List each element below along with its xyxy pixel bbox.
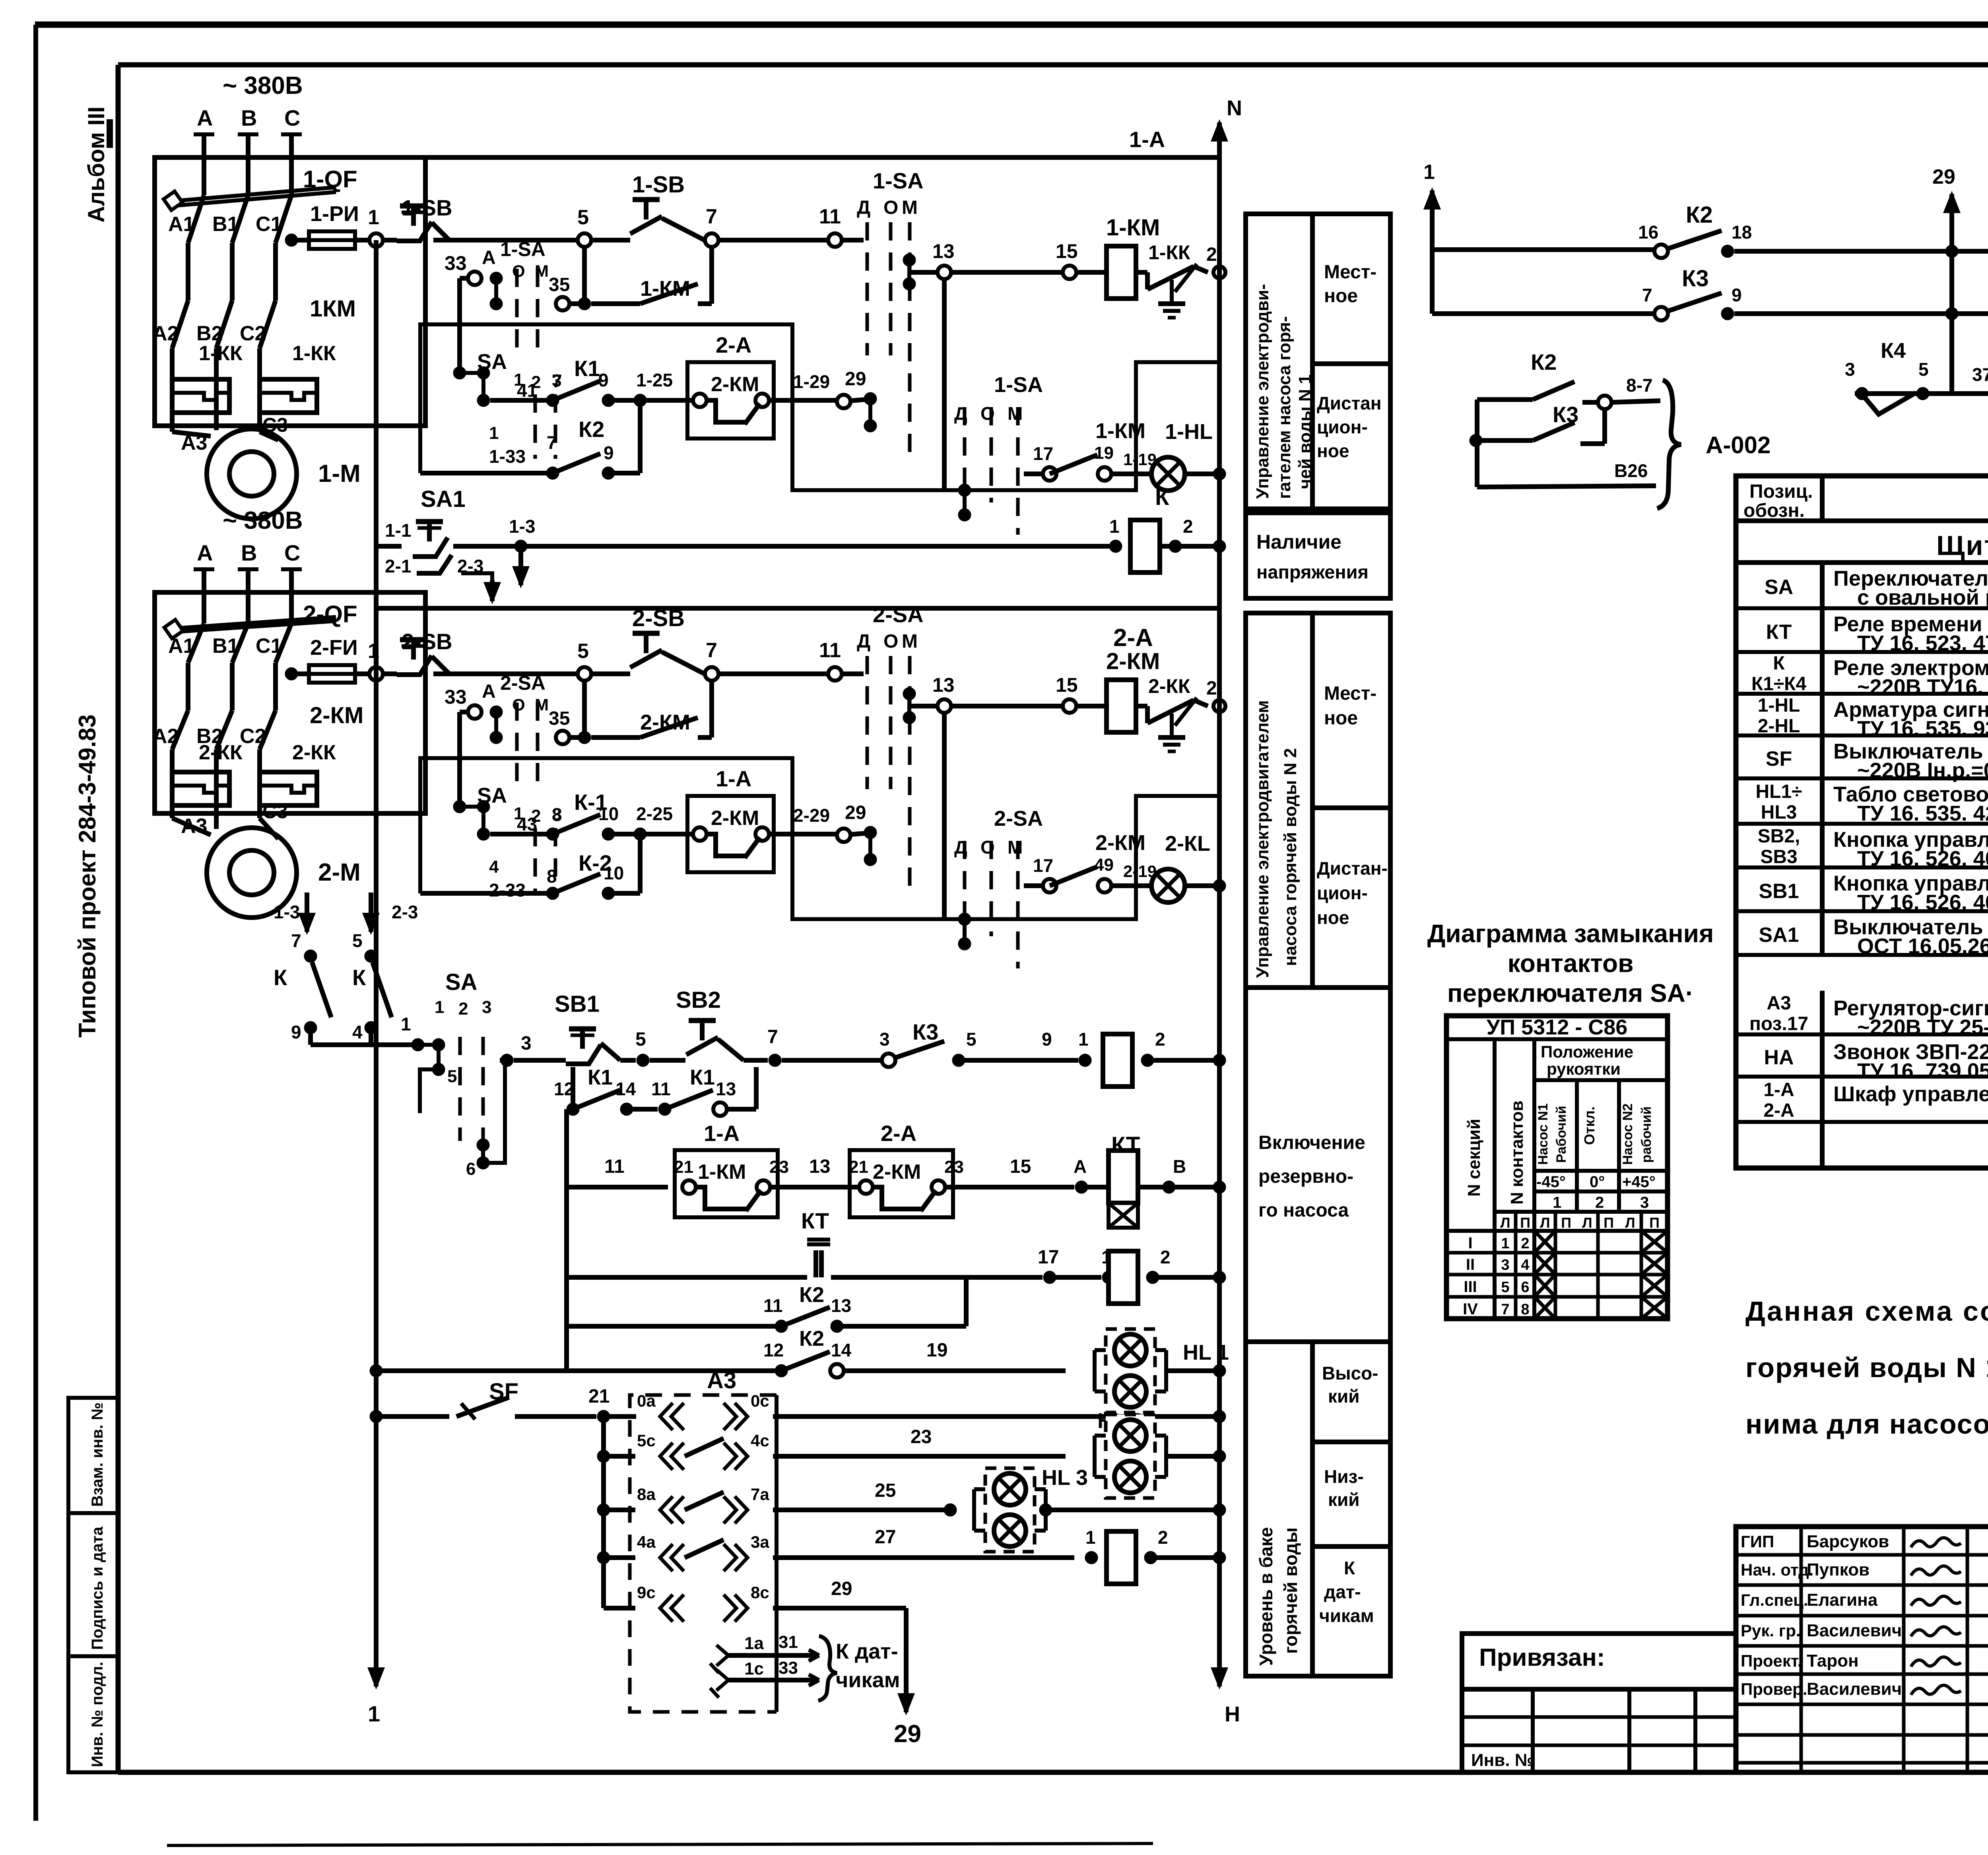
vertical node5 drop — [582, 681, 587, 737]
diagram table header УП5312-С86 — [1446, 1015, 1668, 1039]
svg-text:18: 18 — [1732, 222, 1752, 243]
cabinet 1-А top edge — [425, 127, 1219, 157]
svg-text:2-SA: 2-SA — [873, 602, 924, 627]
svg-text:1: 1 — [401, 1014, 411, 1034]
svg-text:10: 10 — [598, 803, 619, 824]
svg-text:1-29: 1-29 — [793, 371, 830, 392]
switch SA1 — [376, 486, 483, 576]
selector SA small column — [453, 350, 561, 459]
time relay coil КТ — [1081, 1132, 1226, 1228]
svg-text:В1: В1 — [212, 635, 239, 658]
svg-text:2-1: 2-1 — [385, 556, 411, 576]
svg-text:1-SB: 1-SB — [632, 172, 685, 198]
svg-text:41: 41 — [517, 380, 537, 401]
svg-text:К2: К2 — [799, 1283, 824, 1307]
label column box3 rotated text — [1253, 700, 1300, 978]
svg-text:Провер.: Провер. — [1741, 1680, 1807, 1698]
svg-text:1-РИ: 1-РИ — [310, 202, 359, 226]
interlock box 2-А on reserve rung — [849, 1121, 964, 1217]
svg-text:А-002: А-002 — [1706, 432, 1771, 458]
svg-text:Низ-: Низ- — [1324, 1466, 1364, 1487]
svg-text:Рук. гр.: Рук. гр. — [1741, 1621, 1801, 1640]
svg-text:~220В Iн.р.=0,63А ТУ16.522.11: ~220В Iн.р.=0,63А ТУ16.522.110-74 — [1857, 759, 1988, 782]
svg-text:2-НL: 2-НL — [1758, 716, 1800, 737]
svg-text:2-КК: 2-КК — [1148, 675, 1190, 697]
svg-text:8: 8 — [552, 804, 562, 825]
svg-text:9: 9 — [1042, 1029, 1052, 1050]
svg-text:2-КМ: 2-КМ — [711, 807, 759, 830]
contactor main contacts 1КМ — [152, 289, 356, 374]
svg-text:М: М — [902, 197, 918, 218]
svg-text:2-КМ: 2-КМ — [1106, 648, 1160, 674]
svg-text:Гл.спец.: Гл.спец. — [1741, 1591, 1808, 1609]
Привязан box — [1462, 1634, 1736, 1689]
svg-text:Проект.: Проект. — [1741, 1651, 1802, 1670]
parts table rows По месту — [1736, 993, 1988, 1126]
svg-text:23: 23 — [769, 1157, 789, 1177]
signal wire row 2 — [1432, 250, 1654, 314]
svg-text:Высо-: Высо- — [1322, 1363, 1378, 1383]
svg-text:2: 2 — [1158, 1527, 1168, 1548]
svg-text:7: 7 — [706, 639, 717, 662]
node 2 to N — [1206, 678, 1225, 712]
svg-text:Подпись и дата: Подпись и дата — [89, 1526, 106, 1650]
svg-text:HL3: HL3 — [1761, 802, 1797, 823]
svg-text:8а: 8а — [637, 1485, 656, 1504]
svg-text:8с: 8с — [751, 1583, 769, 1602]
svg-text:КТ: КТ — [1766, 621, 1792, 644]
svg-text:Василевич: Василевич — [1807, 1621, 1902, 1640]
svg-text:2: 2 — [1521, 1235, 1529, 1252]
svg-text:7: 7 — [706, 205, 717, 228]
label column box4 Включение резервного насоса — [1246, 988, 1390, 1342]
node 33 А stack 2- — [445, 672, 549, 807]
Привязан grid — [1462, 1689, 1736, 1772]
node 1 on bus 1- — [368, 206, 383, 247]
svg-text:1-25: 1-25 — [636, 370, 673, 390]
signal lamp HL2 assembly — [1066, 1409, 1226, 1498]
svg-text:ное: ное — [1324, 285, 1358, 307]
svg-text:27: 27 — [875, 1527, 896, 1548]
svg-text:2: 2 — [1183, 516, 1193, 537]
section boundary stepped line — [420, 758, 1219, 919]
svg-text:~ 380В: ~ 380В — [223, 72, 303, 99]
wire to node 7 — [662, 652, 705, 674]
svg-text:5: 5 — [1918, 359, 1929, 380]
stamp label Подпись и дата — [89, 1526, 106, 1650]
sensor connector row 1а 31 — [710, 1632, 819, 1673]
svg-text:с овальной рукояткой ТУ16.524: с овальной рукояткой ТУ16.524.074-75 — [1857, 586, 1988, 609]
svg-text:А: А — [197, 105, 213, 130]
svg-text:1: 1 — [1501, 1235, 1509, 1252]
aux contact 2-КМ seal-in — [549, 681, 712, 744]
29 riser arrow — [1932, 165, 1961, 251]
svg-text:21: 21 — [849, 1157, 868, 1177]
wire to node 29 — [769, 369, 877, 432]
svg-text:I: I — [1468, 1234, 1472, 1252]
svg-text:А: А — [482, 247, 496, 268]
node 13 and wire to coil — [909, 674, 1107, 713]
svg-text:HL 1: HL 1 — [1183, 1341, 1229, 1364]
svg-text:1: 1 — [435, 997, 444, 1017]
drawing frame top — [118, 62, 1988, 68]
svg-text:ТУ 16. 526. 407-79: ТУ 16. 526. 407-79 — [1857, 847, 1988, 871]
svg-text:Инв. №: Инв. № — [1471, 1750, 1534, 1770]
svg-text:напряжения: напряжения — [1256, 561, 1369, 582]
svg-text:чей воды N 1: чей воды N 1 — [1295, 374, 1315, 489]
relay contact К2 signal — [1638, 202, 1752, 258]
contactor coil 2-КМ — [1106, 648, 1160, 732]
svg-text:0а: 0а — [637, 1391, 656, 1410]
svg-text:К1: К1 — [690, 1065, 715, 1089]
svg-text:Данная схема составлена для: Данная схема составлена для насосов — [1745, 1296, 1988, 1327]
svg-text:го насоса: го насоса — [1258, 1200, 1349, 1221]
svg-text:К1: К1 — [574, 356, 600, 381]
node 13 and wire to coil — [909, 240, 1107, 279]
relay coil К — [1109, 484, 1226, 572]
node 5 — [577, 640, 591, 681]
svg-text:2-FИ: 2-FИ — [310, 636, 358, 660]
svg-text:21: 21 — [588, 1386, 610, 1407]
level regulator А3 dashed box — [630, 1368, 777, 1712]
svg-text:33: 33 — [779, 1658, 798, 1678]
aux contacts К1 row — [554, 1065, 756, 1116]
label Дистанционное 1 — [1317, 393, 1382, 461]
svg-text:Шкаф управления: Шкаф управления — [1833, 1082, 1988, 1106]
relay contact К2 row — [420, 400, 640, 479]
svg-text:А2: А2 — [152, 725, 179, 748]
svg-text:4: 4 — [1521, 1257, 1529, 1273]
node 5 rung — [635, 1029, 649, 1067]
svg-text:+45°: +45° — [1622, 1173, 1656, 1191]
svg-text:1: 1 — [1078, 1029, 1089, 1050]
svg-text:К2: К2 — [799, 1327, 824, 1351]
svg-text:1: 1 — [1109, 516, 1120, 537]
svg-text:Положение: Положение — [1541, 1042, 1633, 1061]
svg-text:9: 9 — [604, 442, 614, 463]
svg-text:1-1: 1-1 — [385, 520, 411, 541]
svg-text:2-А: 2-А — [1113, 624, 1153, 652]
svg-text:29: 29 — [1932, 165, 1955, 188]
svg-text:1-КК: 1-КК — [1148, 241, 1190, 264]
N rail bottom arrow — [1211, 1650, 1240, 1726]
relay contact К1 row — [490, 356, 693, 407]
relay coil К1 — [1078, 1029, 1226, 1087]
motor 2-М — [172, 800, 361, 918]
wire 7 to 11 — [718, 671, 828, 676]
wire bus to node 5 — [433, 238, 577, 243]
node 1 arrow top right — [1423, 161, 1441, 250]
svg-text:1-КК: 1-КК — [199, 342, 243, 365]
svg-text:1-КМ: 1-КМ — [698, 1160, 746, 1184]
svg-text:SB2,: SB2, — [1758, 826, 1800, 847]
А3 contact row 0а-0с — [604, 1391, 1226, 1608]
svg-text:1-SA: 1-SA — [994, 373, 1043, 397]
svg-text:К: К — [274, 965, 287, 990]
svg-text:9: 9 — [291, 1022, 301, 1042]
node 7 rung — [767, 1026, 781, 1067]
svg-text:2-А: 2-А — [716, 332, 751, 357]
svg-text:цион-: цион- — [1317, 417, 1368, 437]
svg-text:Л: Л — [1582, 1215, 1592, 1231]
relay contact К3 rung — [782, 1019, 1078, 1067]
vertical node5 drop — [582, 247, 587, 304]
relay contact К3 А-002 — [1470, 402, 1605, 447]
power feed ~380V pump 2-М — [194, 507, 303, 612]
svg-text:N контактов: N контактов — [1507, 1100, 1527, 1205]
svg-text:чикам: чикам — [836, 1668, 900, 1692]
svg-text:-45°: -45° — [1536, 1173, 1566, 1191]
wire bus to node 5 — [433, 671, 577, 676]
aux contact 1-КМ seal-in — [549, 247, 712, 310]
inner box pump1 top — [420, 324, 791, 400]
selector SA small column — [453, 784, 561, 893]
svg-text:N секций: N секций — [1464, 1119, 1484, 1197]
А3 contact row 9с-8с — [604, 1578, 906, 1622]
selector SA dashed group bottom — [420, 969, 505, 1179]
wire to SA — [842, 671, 864, 676]
svg-text:В: В — [241, 105, 257, 130]
А-002 bottom wire В26 — [1477, 400, 1656, 487]
svg-text:Щит управления: Щит управления — [1936, 530, 1988, 561]
svg-text:11: 11 — [819, 639, 841, 662]
svg-text:2-КМ: 2-КМ — [711, 373, 759, 396]
wire to node 29 riser — [1734, 245, 1958, 258]
svg-text:Л: Л — [1625, 1215, 1635, 1231]
svg-text:1с: 1с — [744, 1659, 764, 1678]
svg-text:А: А — [1074, 1156, 1087, 1177]
svg-text:1-М: 1-М — [318, 460, 361, 487]
svg-text:7: 7 — [767, 1026, 778, 1048]
svg-text:3а: 3а — [751, 1533, 769, 1551]
svg-text:14: 14 — [831, 1340, 852, 1360]
svg-text:IV: IV — [1463, 1300, 1478, 1318]
stamp column boxes bottom-left — [68, 1398, 118, 1772]
svg-text:К: К — [1155, 484, 1169, 510]
svg-text:Д: Д — [857, 197, 870, 218]
svg-text:10: 10 — [604, 863, 624, 883]
svg-text:М: М — [902, 631, 918, 652]
start rung wire — [500, 1033, 532, 1067]
А3 contact row 8а-7а — [597, 1480, 950, 1523]
svg-text:С: С — [284, 105, 300, 130]
relay К contact left 1 — [274, 893, 331, 1045]
svg-text:1: 1 — [368, 206, 379, 229]
svg-text:1: 1 — [368, 1701, 380, 1726]
label column box2 Наличие напряжения — [1246, 513, 1390, 598]
svg-text:II: II — [1466, 1256, 1475, 1273]
wire to КТ coil — [945, 1156, 1088, 1193]
svg-text:1-SA: 1-SA — [873, 168, 924, 193]
svg-text:HL 3: HL 3 — [1042, 1466, 1088, 1490]
wire to node 29 — [769, 802, 877, 866]
svg-text:Привязан:: Привязан: — [1479, 1644, 1605, 1671]
svg-text:5: 5 — [966, 1029, 977, 1050]
diagram table data rows — [1446, 1231, 1668, 1319]
node 11 — [819, 205, 842, 247]
selector 1-SA dashed column top — [857, 168, 924, 455]
svg-text:SA: SA — [445, 969, 478, 995]
svg-text:7: 7 — [1642, 285, 1652, 305]
svg-text:8-7: 8-7 — [1626, 375, 1652, 396]
selector 2-SA second dashed column — [944, 713, 1043, 968]
svg-text:3: 3 — [1845, 359, 1855, 380]
svg-text:2-КМ: 2-КМ — [873, 1160, 921, 1184]
svg-text:8: 8 — [547, 866, 557, 887]
circuit breaker 1-QF — [155, 157, 425, 426]
svg-text:11: 11 — [604, 1156, 625, 1177]
N rail vertical — [1211, 96, 1242, 1650]
svg-text:3: 3 — [521, 1033, 532, 1054]
svg-text:23: 23 — [911, 1426, 932, 1448]
svg-text:Н: Н — [1225, 1702, 1240, 1726]
node 7 — [705, 205, 718, 247]
svg-text:1: 1 — [489, 423, 499, 443]
node 33 А stack 1- — [445, 238, 549, 373]
label Местное 2 — [1324, 683, 1376, 729]
relay contact К-2 row — [420, 834, 640, 900]
node 7 — [705, 639, 718, 681]
svg-text:1-33: 1-33 — [489, 446, 526, 467]
wire SA1 to K coil — [453, 516, 1109, 588]
svg-text:1-А: 1-А — [716, 766, 751, 791]
svg-text:2-25: 2-25 — [636, 803, 673, 824]
svg-text:SA: SA — [1765, 576, 1793, 599]
svg-text:2: 2 — [458, 999, 468, 1019]
pushbutton SB2 — [650, 987, 768, 1060]
svg-text:К: К — [352, 965, 366, 990]
label К датчикам — [1319, 1558, 1374, 1626]
svg-text:9: 9 — [1732, 285, 1742, 305]
svg-text:рабочий: рабочий — [1639, 1106, 1654, 1163]
node 5 — [577, 206, 591, 247]
svg-text:поз.17: поз.17 — [1749, 1013, 1808, 1034]
svg-text:7: 7 — [1501, 1301, 1509, 1318]
label Высокий — [1322, 1363, 1378, 1407]
contactor main contacts 2-КМ — [152, 700, 363, 771]
stray scan line bottom — [167, 1843, 1153, 1845]
svg-text:К3: К3 — [1682, 266, 1709, 291]
wire between interlock boxes — [771, 1156, 859, 1187]
svg-text:1-НL: 1-НL — [1758, 695, 1800, 716]
svg-text:29: 29 — [831, 1578, 852, 1599]
relay contact К2 А-002 — [1477, 349, 1660, 409]
svg-text:9с: 9с — [637, 1583, 656, 1602]
svg-text:43: 43 — [517, 814, 537, 834]
svg-text:С3: С3 — [262, 800, 288, 823]
aux contact 1-КМ lamp row — [1024, 419, 1157, 481]
pushbutton 1-SB stop — [383, 195, 452, 241]
svg-text:2-А: 2-А — [881, 1121, 916, 1146]
svg-text:0с: 0с — [751, 1391, 769, 1410]
wire row2 right — [1734, 251, 1988, 320]
sensor connector row 1с 33 — [710, 1658, 819, 1698]
svg-text:7а: 7а — [751, 1485, 769, 1504]
svg-text:К2: К2 — [1686, 202, 1713, 228]
svg-text:С: С — [284, 540, 300, 565]
svg-text:Диаграмма замыкания: Диаграмма замыкания — [1427, 919, 1714, 948]
svg-text:2: 2 — [1595, 1194, 1604, 1211]
svg-text:К2: К2 — [1531, 349, 1557, 374]
svg-text:М: М — [1008, 403, 1023, 424]
svg-text:2-3: 2-3 — [392, 902, 418, 922]
svg-text:С2: С2 — [240, 322, 266, 345]
signal wire row 1 — [1432, 247, 1654, 252]
svg-text:1-НL: 1-НL — [1165, 420, 1213, 444]
parts table vertical lines — [1822, 521, 1988, 1168]
thermal relay 2-КК elements — [172, 741, 336, 813]
svg-text:0°: 0° — [1590, 1173, 1605, 1191]
stamp label Взам инв № — [89, 1403, 106, 1507]
label column box5 rotated text — [1256, 1527, 1301, 1666]
svg-text:SA1: SA1 — [421, 486, 466, 512]
svg-text:Дистан-: Дистан- — [1317, 858, 1388, 879]
svg-text:2-SA: 2-SA — [500, 672, 546, 694]
label Низкий — [1324, 1466, 1364, 1510]
svg-text:35: 35 — [549, 708, 570, 729]
parts table outer frame — [1736, 476, 1988, 1168]
svg-text:Откл.: Откл. — [1581, 1106, 1598, 1145]
svg-text:цион-: цион- — [1317, 883, 1368, 903]
svg-text:2-SA: 2-SA — [994, 807, 1043, 830]
svg-text:А3: А3 — [181, 815, 207, 838]
svg-text:SB3: SB3 — [1760, 846, 1797, 867]
svg-text:11: 11 — [651, 1079, 671, 1099]
svg-text:К: К — [1773, 653, 1785, 674]
interlock box 2-А with КМ contact — [687, 332, 774, 439]
svg-text:Мест-: Мест- — [1324, 683, 1376, 704]
svg-text:8: 8 — [1521, 1301, 1529, 1318]
svg-text:рукоятки: рукоятки — [1547, 1059, 1621, 1078]
outer border left — [33, 25, 38, 1821]
svg-text:4: 4 — [489, 857, 499, 877]
svg-text:3: 3 — [482, 997, 491, 1017]
svg-text:дат-: дат- — [1324, 1581, 1361, 1602]
svg-text:кий: кий — [1328, 1489, 1360, 1510]
svg-text:А3: А3 — [181, 431, 207, 454]
svg-text:4с: 4с — [751, 1431, 769, 1450]
label Дистанционное 2 — [1317, 858, 1388, 928]
pushbutton 1-SB start — [591, 172, 685, 240]
diagram title — [1427, 919, 1714, 1007]
svg-text:ное: ное — [1324, 708, 1358, 729]
svg-text:1-SA: 1-SA — [500, 238, 546, 260]
svg-text:переключателя SА·: переключателя SА· — [1447, 979, 1694, 1007]
svg-text:7: 7 — [291, 930, 301, 951]
svg-text:1-КМ: 1-КМ — [1095, 419, 1145, 443]
svg-text:~220В ТУ16. 523. 331-78: ~220В ТУ16. 523. 331-78 — [1857, 675, 1988, 699]
svg-text:11: 11 — [819, 205, 841, 228]
svg-text:~ 380В: ~ 380В — [223, 507, 303, 534]
svg-text:НА: НА — [1764, 1046, 1794, 1069]
svg-text:Л: Л — [1500, 1215, 1510, 1231]
svg-text:1: 1 — [1085, 1527, 1096, 1548]
svg-text:2-КК: 2-КК — [199, 741, 243, 764]
svg-text:П: П — [1561, 1215, 1571, 1231]
svg-text:1-А: 1-А — [1129, 127, 1165, 152]
svg-text:А2: А2 — [152, 322, 179, 345]
svg-text:III: III — [1464, 1278, 1477, 1296]
svg-text:5с: 5с — [637, 1431, 656, 1450]
svg-text:5: 5 — [447, 1067, 457, 1086]
svg-text:Типовой проект 284-3-49.83: Типовой проект 284-3-49.83 — [74, 714, 101, 1038]
pushbutton 2-SB start — [591, 605, 685, 674]
contactor coil 1-КМ — [1106, 215, 1160, 299]
svg-text:16: 16 — [1638, 222, 1658, 243]
svg-text:В: В — [1173, 1156, 1186, 1177]
svg-text:12: 12 — [763, 1340, 784, 1360]
parts table header row — [1736, 476, 1988, 521]
